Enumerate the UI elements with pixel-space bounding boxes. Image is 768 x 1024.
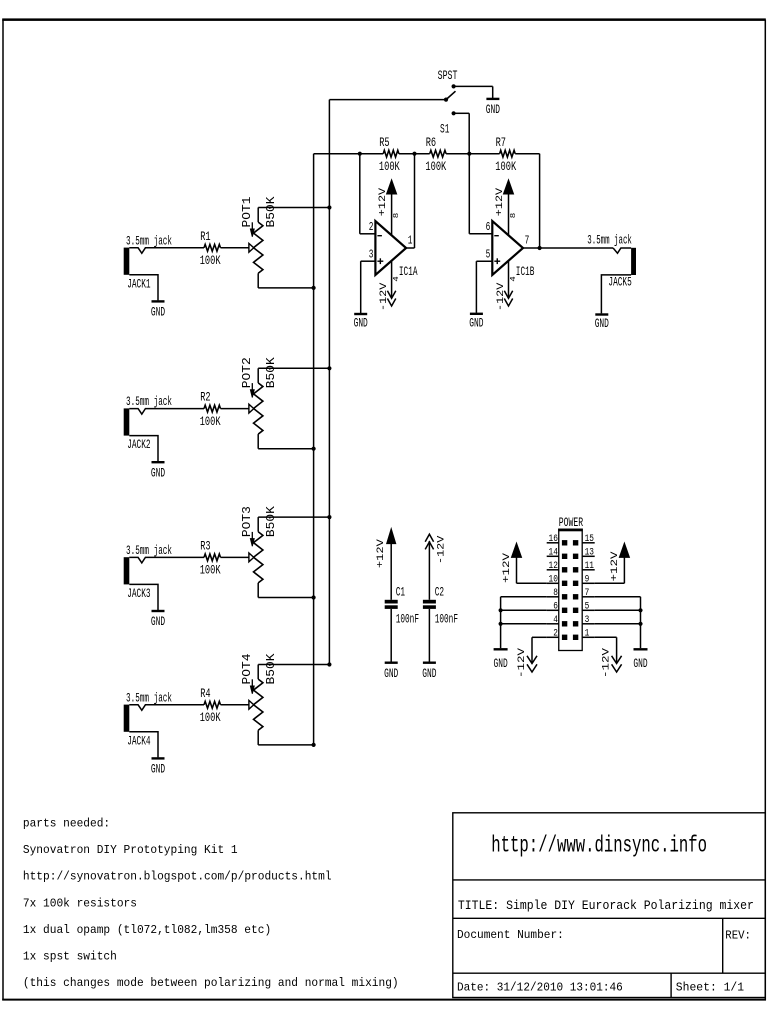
wire pin 9 to +12V rail [595, 582, 625, 584]
ground at switch [486, 99, 500, 117]
wire pin 1 to -12V right [595, 637, 617, 663]
wire feedback vertical IC1A [414, 154, 416, 248]
svg-text:Sheet: 1/1: Sheet: 1/1 [676, 982, 744, 995]
svg-text:12: 12 [549, 561, 558, 572]
summing bus wire (pot bottoms to virtual ground node) [313, 154, 315, 745]
svg-text:JACK4: JACK4 [127, 733, 151, 748]
svg-text:100K: 100K [425, 159, 446, 174]
wire IC1B non-inverting input pin 5 to ground [476, 261, 492, 313]
pin 1 stub POWER right [582, 629, 595, 640]
svg-text:http://synovatron.blogspot.com: http://synovatron.blogspot.com/p/product… [23, 871, 332, 884]
wire POT2 top terminal to switch bus [258, 366, 331, 370]
resistor R3 100K [200, 539, 221, 578]
wire POT3 bottom terminal to summing bus [258, 595, 316, 599]
ground under JACK5 [595, 315, 609, 331]
svg-text:B50K: B50K [265, 653, 278, 684]
svg-text:15: 15 [585, 534, 594, 545]
svg-text:3.5mm jack: 3.5mm jack [126, 394, 172, 409]
pin 3 stub POWER right [582, 615, 595, 626]
svg-text:R1: R1 [200, 229, 211, 244]
svg-text:-12V: -12V [496, 283, 507, 311]
svg-text:100K: 100K [200, 710, 221, 725]
wire R7 to IC1B output [515, 154, 539, 248]
svg-text:+12V: +12V [610, 552, 621, 582]
svg-text:-12V: -12V [436, 536, 447, 564]
svg-text:GND: GND [384, 666, 398, 681]
ground left of POWER [494, 649, 508, 671]
svg-text:GND: GND [151, 614, 165, 629]
wire IC1B output pin 7 to JACK5 [523, 246, 613, 250]
svg-text:8: 8 [553, 588, 558, 599]
svg-text:JACK2: JACK2 [127, 437, 150, 452]
svg-text:REV:: REV: [725, 930, 751, 943]
svg-text:parts needed:: parts needed: [23, 818, 110, 831]
svg-text:POWER: POWER [559, 515, 584, 530]
svg-text:GND: GND [151, 762, 165, 777]
op-amp IC1B [486, 220, 535, 279]
svg-text:3.5mm jack: 3.5mm jack [126, 233, 172, 248]
pin 2 stub POWER left [547, 629, 559, 640]
node wire summing bus to R5 and IC1A inverting input [314, 152, 384, 156]
svg-text:13: 13 [585, 548, 594, 559]
pin 8 stub POWER left [547, 588, 559, 599]
ground at IC1A pin 3 [354, 314, 368, 330]
wire pin 10 to +12V rail [517, 582, 547, 584]
pin 10 stub POWER left [547, 575, 559, 586]
capacitor C2 100nF -12V decoupling [423, 534, 458, 661]
wire IC1A inverting input pin 2 [360, 154, 376, 234]
svg-text:3: 3 [369, 247, 374, 261]
svg-text:R3: R3 [200, 539, 210, 554]
svg-text:R5: R5 [379, 135, 389, 150]
svg-text:JACK1: JACK1 [127, 276, 151, 291]
+12V supply arrow right of POWER [610, 543, 629, 583]
svg-text:7: 7 [525, 234, 530, 248]
connector POWER 2x8 header [558, 515, 583, 651]
wire R2 to POT2 wiper [221, 408, 249, 410]
svg-text:+12V: +12V [378, 188, 389, 216]
pin 5 stub POWER right [582, 602, 595, 613]
pin 15 stub POWER right [582, 534, 595, 545]
wire pin 2 to -12V left [532, 637, 547, 663]
svg-text:POT1: POT1 [241, 196, 254, 227]
svg-text:IC1A: IC1A [399, 264, 418, 279]
wire POT1 top terminal to switch bus [258, 205, 331, 209]
wire POT1 bottom terminal to summing bus [258, 286, 316, 290]
wire IC1A non-inverting input pin 3 to ground [361, 261, 376, 313]
resistor R1 100K [200, 229, 221, 268]
svg-text:3: 3 [585, 615, 590, 626]
wire R3 to POT3 wiper [221, 556, 249, 558]
resistor R2 100K [200, 390, 221, 429]
ground under JACK3 [151, 611, 165, 629]
svg-text:2: 2 [553, 629, 558, 640]
pin 7 stub POWER right [582, 588, 595, 599]
svg-text:GND: GND [354, 315, 368, 330]
svg-text:10: 10 [549, 575, 558, 586]
svg-text:IC1B: IC1B [516, 264, 535, 279]
svg-text:8: 8 [510, 213, 518, 219]
op-amp IC1A [369, 220, 418, 279]
title block date and sheet row [457, 982, 744, 995]
jack JACK5 3.5mm output connector [587, 232, 636, 313]
ground right of POWER [633, 649, 647, 671]
svg-text:POT2: POT2 [241, 357, 254, 388]
svg-text:SPST: SPST [438, 68, 458, 83]
svg-text:1x spst switch: 1x spst switch [23, 951, 117, 964]
svg-text:7x 100k resistors: 7x 100k resistors [23, 897, 137, 910]
node wire R5 to R6 at IC1A output [399, 152, 430, 156]
pot-top bus wire to switch [329, 100, 446, 665]
node wire R6 to R7 at IC1B inverting input [446, 152, 500, 156]
-12V supply arrow IC1A pin 4 [379, 260, 401, 311]
svg-text:+12V: +12V [376, 539, 387, 568]
+12V supply arrow IC1B pin 8 [495, 180, 518, 235]
svg-text:100nF: 100nF [435, 612, 458, 627]
svg-text:3.5mm jack: 3.5mm jack [587, 232, 632, 247]
potentiometer POT1 B50K [241, 196, 278, 288]
svg-text:http://www.dinsync.info: http://www.dinsync.info [491, 833, 707, 859]
resistor R5 100K feedback [379, 135, 400, 174]
svg-text:+12V: +12V [495, 188, 506, 216]
svg-text:TITLE: Simple DIY Eurorack Pol: TITLE: Simple DIY Eurorack Polarizing mi… [458, 899, 754, 913]
wire pins 7 5 3 to ground bus right [595, 597, 643, 648]
svg-text:3.5mm jack: 3.5mm jack [126, 543, 172, 558]
svg-text:GND: GND [595, 316, 609, 331]
svg-text:2: 2 [369, 220, 374, 234]
pin 6 stub POWER left [547, 602, 559, 613]
svg-text:GND: GND [151, 465, 165, 480]
potentiometer POT3 B50K [241, 506, 278, 598]
title block website text [491, 833, 707, 859]
wire IC1A output pin 1 to feedback node [406, 247, 414, 249]
jack JACK2 3.5mm input connector [124, 394, 204, 461]
ground at IC1B pin 5 [469, 314, 483, 331]
ground under JACK2 [151, 462, 165, 480]
wire POT4 top terminal to switch bus [258, 662, 331, 666]
svg-text:5: 5 [585, 602, 590, 613]
+12V supply arrow left of POWER [502, 543, 522, 583]
svg-text:GND: GND [469, 315, 483, 330]
title block TITLE row [458, 899, 754, 913]
wire POT4 bottom terminal to summing bus [258, 743, 316, 747]
svg-text:GND: GND [151, 305, 165, 320]
svg-text:6: 6 [486, 220, 491, 234]
svg-text:(this changes mode between pol: (this changes mode between polarizing an… [23, 977, 399, 990]
potentiometer POT2 B50K [241, 357, 278, 449]
svg-text:R7: R7 [496, 135, 506, 150]
ground under C2 [422, 663, 436, 681]
svg-text:Date: 31/12/2010 13:01:46: Date: 31/12/2010 13:01:46 [457, 982, 623, 995]
resistor R6 100K [425, 135, 446, 174]
svg-text:GND: GND [422, 666, 436, 681]
-12V supply arrow right below POWER [602, 648, 622, 678]
svg-text:1: 1 [408, 234, 413, 248]
svg-text:B50K: B50K [265, 357, 278, 388]
svg-text:S1: S1 [440, 122, 450, 137]
svg-text:1x dual opamp (tl072,tl082,lm3: 1x dual opamp (tl072,tl082,lm358 etc) [23, 924, 271, 937]
svg-text:GND: GND [486, 102, 500, 117]
wire R1 to POT1 wiper [221, 247, 249, 249]
svg-text:100K: 100K [200, 253, 221, 268]
wire IC1B inverting input pin 6 [469, 154, 492, 234]
pin 14 stub POWER left [547, 548, 559, 559]
wire R4 to POT4 wiper [221, 704, 249, 706]
wire switch top contact to ground [454, 86, 493, 98]
potentiometer POT4 B50K [241, 653, 278, 745]
wire pins 8 6 4 to ground bus left [499, 597, 547, 648]
resistor R4 100K [200, 686, 221, 725]
svg-text:B50K: B50K [265, 506, 278, 537]
svg-text:R6: R6 [426, 135, 436, 150]
title block frame [453, 813, 766, 998]
svg-text:9: 9 [585, 575, 590, 586]
svg-text:100K: 100K [495, 159, 516, 174]
svg-text:7: 7 [585, 588, 590, 599]
+12V supply arrow IC1A pin 8 [378, 180, 401, 235]
ground under C1 [384, 663, 398, 681]
svg-text:JACK5: JACK5 [608, 275, 631, 290]
parts list notes text [23, 818, 399, 991]
capacitor C1 100nF +12V decoupling [376, 529, 419, 662]
pin 9 stub POWER right [582, 575, 595, 586]
svg-text:4: 4 [393, 276, 401, 282]
svg-text:16: 16 [549, 534, 558, 545]
svg-text:100nF: 100nF [396, 612, 419, 627]
-12V supply arrow IC1B pin 4 [496, 260, 518, 311]
svg-text:14: 14 [549, 548, 558, 559]
resistor R7 100K feedback [495, 135, 516, 174]
svg-text:100K: 100K [200, 563, 221, 578]
switch S1 SPST [438, 68, 458, 136]
svg-text:-12V: -12V [602, 648, 613, 678]
svg-text:GND: GND [494, 656, 508, 671]
svg-text:4: 4 [510, 276, 518, 282]
svg-text:R2: R2 [200, 390, 210, 405]
svg-text:POT4: POT4 [241, 653, 254, 684]
svg-text:4: 4 [553, 615, 558, 626]
pin 13 stub POWER right [582, 548, 595, 559]
wire POT2 bottom terminal to summing bus [258, 447, 316, 451]
svg-text:6: 6 [553, 602, 558, 613]
svg-text:100K: 100K [200, 414, 221, 429]
jack JACK3 3.5mm input connector [124, 543, 204, 610]
wire switch bottom contact to R6/R7 node [454, 113, 470, 153]
title block document number row [457, 929, 751, 943]
ground under JACK1 [151, 301, 165, 319]
jack JACK4 3.5mm input connector [124, 690, 204, 757]
svg-text:5: 5 [486, 247, 491, 261]
svg-text:Document Number:: Document Number: [457, 929, 564, 942]
ground under JACK4 [151, 758, 165, 776]
wire POT3 top terminal to switch bus [258, 515, 331, 519]
svg-text:R4: R4 [200, 686, 211, 701]
svg-text:1: 1 [585, 629, 590, 640]
svg-text:+12V: +12V [502, 553, 513, 583]
svg-text:8: 8 [393, 213, 401, 219]
svg-text:-12V: -12V [379, 283, 390, 311]
svg-text:100K: 100K [379, 159, 400, 174]
pin 4 stub POWER left [547, 615, 559, 626]
svg-text:C1: C1 [396, 584, 406, 599]
pin 16 stub POWER left [547, 534, 559, 545]
svg-text:C2: C2 [435, 584, 444, 599]
svg-text:GND: GND [633, 656, 647, 671]
svg-text:B50K: B50K [265, 196, 278, 227]
svg-text:Synovatron DIY Prototyping Kit: Synovatron DIY Prototyping Kit 1 [23, 844, 238, 857]
svg-text:POT3: POT3 [241, 506, 254, 537]
svg-text:11: 11 [585, 561, 594, 572]
-12V supply arrow left below POWER [517, 648, 537, 678]
svg-text:JACK3: JACK3 [127, 586, 150, 601]
svg-text:3.5mm jack: 3.5mm jack [126, 690, 172, 705]
pin 12 stub POWER left [547, 561, 559, 572]
pin 11 stub POWER right [582, 561, 595, 572]
jack JACK1 3.5mm input connector [124, 233, 204, 300]
svg-text:-12V: -12V [517, 648, 528, 678]
